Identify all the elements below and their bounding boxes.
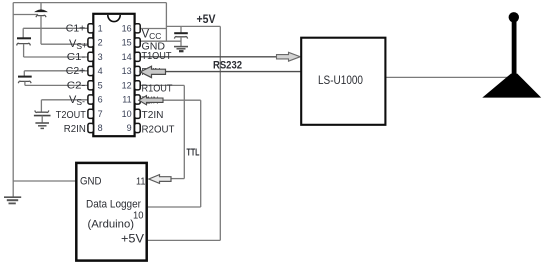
svg-text:T2OUT: T2OUT	[56, 109, 87, 121]
svg-text:8: 8	[98, 123, 103, 133]
svg-text:+5V: +5V	[121, 233, 144, 245]
svg-text:2: 2	[98, 38, 103, 48]
svg-text:12: 12	[122, 80, 132, 90]
svg-text:(Arduino): (Arduino)	[88, 219, 135, 231]
svg-text:+5V: +5V	[197, 14, 216, 26]
svg-text:T1OUT: T1OUT	[142, 50, 173, 62]
svg-text:C1-: C1-	[67, 52, 86, 63]
svg-text:4: 4	[98, 66, 103, 76]
svg-text:10: 10	[133, 209, 144, 221]
svg-text:C2+: C2+	[66, 66, 86, 77]
svg-text:7: 7	[98, 109, 103, 119]
svg-text:11: 11	[136, 175, 146, 187]
svg-text:3: 3	[98, 52, 103, 62]
svg-text:RS232: RS232	[213, 60, 242, 72]
svg-text:T2IN: T2IN	[142, 109, 164, 121]
svg-text:11: 11	[122, 95, 131, 105]
svg-text:6: 6	[98, 95, 103, 105]
svg-text:15: 15	[122, 38, 132, 48]
svg-text:R2OUT: R2OUT	[142, 123, 176, 135]
svg-text:1: 1	[98, 23, 103, 33]
svg-text:16: 16	[122, 23, 132, 33]
svg-text:TTL: TTL	[187, 146, 200, 158]
svg-text:LS-U1000: LS-U1000	[318, 75, 363, 87]
svg-text:14: 14	[122, 52, 132, 62]
svg-text:VCC: VCC	[142, 29, 162, 42]
svg-text:C2-: C2-	[67, 81, 86, 92]
svg-text:13: 13	[122, 66, 132, 76]
svg-text:9: 9	[127, 123, 132, 133]
svg-text:R1OUT: R1OUT	[142, 82, 174, 94]
svg-text:R2IN: R2IN	[64, 123, 86, 135]
svg-text:10: 10	[122, 109, 132, 119]
svg-text:GND: GND	[80, 175, 102, 187]
svg-text:C1+: C1+	[66, 23, 86, 34]
svg-text:5: 5	[98, 80, 103, 90]
